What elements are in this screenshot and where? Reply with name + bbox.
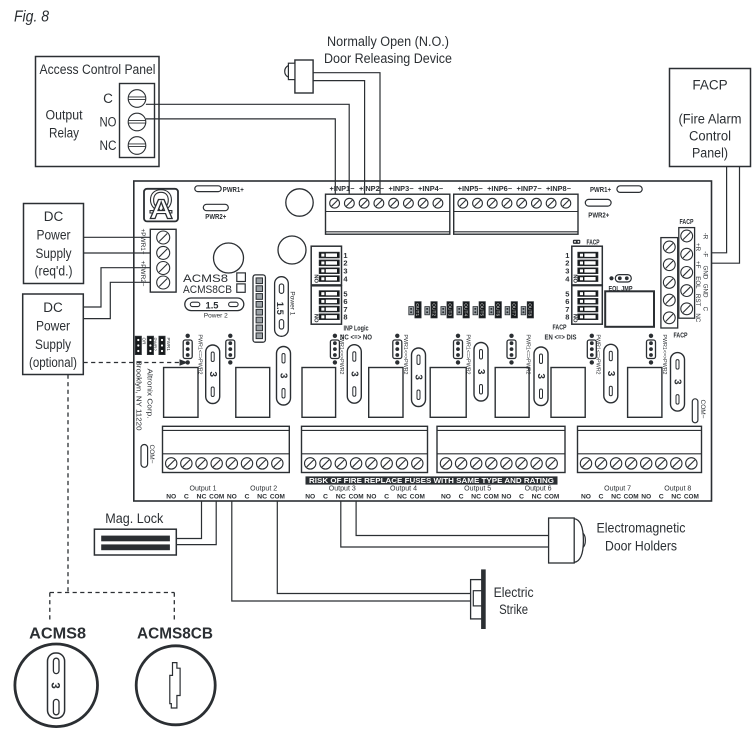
svg-text:RISK OF FIRE REPLACE FUSES WIT: RISK OF FIRE REPLACE FUSES WITH SAME TYP… <box>309 478 555 485</box>
svg-text:OUT3: OUT3 <box>447 303 452 316</box>
svg-text:Fig. 8: Fig. 8 <box>14 9 49 26</box>
svg-text:OR: OR <box>142 338 147 346</box>
svg-text:C: C <box>103 91 113 106</box>
svg-text:+INP4−: +INP4− <box>418 186 443 193</box>
svg-text:OUT2: OUT2 <box>431 303 436 316</box>
svg-text:Power 2: Power 2 <box>204 313 228 320</box>
svg-text:NO: NO <box>305 493 315 500</box>
svg-text:3: 3 <box>349 371 360 377</box>
svg-text:3: 3 <box>207 371 218 377</box>
svg-text:ON: ON <box>314 314 320 323</box>
svg-text:+R: +R <box>694 243 701 252</box>
svg-text:+PWR1−: +PWR1− <box>139 229 146 255</box>
svg-text:ON: ON <box>574 314 580 323</box>
svg-text:Output 6: Output 6 <box>525 486 552 493</box>
svg-text:A: A <box>150 193 174 224</box>
svg-text:Output: Output <box>46 108 83 123</box>
svg-text:ACMS8: ACMS8 <box>29 626 86 643</box>
svg-text:3: 3 <box>605 371 616 377</box>
svg-text:PWR2+: PWR2+ <box>205 214 226 221</box>
svg-text:Altronix Corp.: Altronix Corp. <box>145 369 152 419</box>
svg-text:COM−: COM− <box>148 445 155 464</box>
svg-text:COM: COM <box>684 493 699 500</box>
svg-text:PWR1<=>PWR2: PWR1<=>PWR2 <box>595 335 601 375</box>
svg-text:+INP5−: +INP5− <box>458 186 483 193</box>
svg-text:ACMS8CB: ACMS8CB <box>183 284 232 296</box>
svg-text:COM: COM <box>270 493 285 500</box>
svg-text:PWR1+: PWR1+ <box>223 187 244 194</box>
svg-text:Strike: Strike <box>499 602 528 617</box>
svg-text:COM: COM <box>624 493 639 500</box>
svg-text:+INP2−: +INP2− <box>359 186 384 193</box>
svg-text:+INP7−: +INP7− <box>517 186 542 193</box>
svg-text:3: 3 <box>278 373 289 379</box>
svg-text:C: C <box>599 493 604 500</box>
svg-text:NO: NO <box>166 493 176 500</box>
svg-text:PWR1<=>PWR2: PWR1<=>PWR2 <box>661 335 667 375</box>
svg-text:DC: DC <box>43 300 63 315</box>
svg-text:+INP8−: +INP8− <box>546 186 571 193</box>
svg-text:EN <=> DIS: EN <=> DIS <box>545 334 577 341</box>
svg-text:C: C <box>659 493 664 500</box>
svg-text:Control: Control <box>689 129 731 144</box>
svg-text:FACP: FACP <box>680 219 694 226</box>
svg-text:Access Control Panel: Access Control Panel <box>40 62 156 77</box>
svg-text:Panel): Panel) <box>692 146 728 161</box>
svg-text:C: C <box>459 493 464 500</box>
svg-text:Output 8: Output 8 <box>664 486 691 493</box>
svg-text:PWR1<=>PWR2: PWR1<=>PWR2 <box>338 335 344 375</box>
svg-text:NO: NO <box>100 115 117 130</box>
svg-text:+INP6−: +INP6− <box>487 186 512 193</box>
svg-text:NO: NO <box>581 493 591 500</box>
svg-text:1.5: 1.5 <box>206 300 220 311</box>
svg-text:Output 3: Output 3 <box>329 486 356 493</box>
svg-text:NO: NO <box>501 493 511 500</box>
svg-text:DC: DC <box>44 209 64 224</box>
svg-text:COM−: COM− <box>699 400 706 419</box>
svg-text:Power: Power <box>36 319 70 334</box>
svg-text:C: C <box>245 493 250 500</box>
svg-text:NC: NC <box>694 313 701 322</box>
svg-text:FACP: FACP <box>692 78 727 93</box>
svg-text:Output 1: Output 1 <box>190 486 217 493</box>
svg-text:NO: NO <box>227 493 237 500</box>
svg-text:GND: GND <box>701 284 708 298</box>
svg-text:Output 7: Output 7 <box>604 486 631 493</box>
svg-text:Brooklyn, NY 11220: Brooklyn, NY 11220 <box>135 361 142 431</box>
svg-text:3: 3 <box>475 369 486 375</box>
svg-text:3: 3 <box>672 379 683 385</box>
svg-text:Output 2: Output 2 <box>250 486 277 493</box>
svg-text:Output 4: Output 4 <box>390 486 417 493</box>
svg-text:NC: NC <box>257 493 267 500</box>
svg-text:PWR2: PWR2 <box>152 338 157 352</box>
svg-text:ON: ON <box>314 274 320 283</box>
svg-text:OUT5: OUT5 <box>479 303 484 316</box>
svg-text:+INP3−: +INP3− <box>389 186 414 193</box>
svg-text:FACP: FACP <box>553 325 567 332</box>
svg-text:3: 3 <box>49 682 61 688</box>
svg-text:C: C <box>701 307 708 312</box>
svg-text:RST: RST <box>694 294 701 307</box>
svg-text:OUT4: OUT4 <box>463 303 468 316</box>
svg-text:NC: NC <box>197 493 207 500</box>
svg-text:NC: NC <box>336 493 346 500</box>
svg-text:Normally Open (N.O.): Normally Open (N.O.) <box>327 34 449 49</box>
svg-text:Mag. Lock: Mag. Lock <box>105 511 163 526</box>
svg-text:Supply: Supply <box>36 246 72 261</box>
svg-text:NC: NC <box>532 493 542 500</box>
svg-text:Electric: Electric <box>494 585 534 600</box>
svg-text:Door Releasing Device: Door Releasing Device <box>324 51 452 66</box>
svg-text:(Fire Alarm: (Fire Alarm <box>679 112 742 127</box>
svg-text:C: C <box>384 493 389 500</box>
svg-text:Relay: Relay <box>49 126 79 141</box>
svg-text:(req'd.): (req'd.) <box>35 264 73 279</box>
svg-text:Output 5: Output 5 <box>464 486 491 493</box>
svg-text:8: 8 <box>565 313 569 322</box>
svg-text:(optional): (optional) <box>29 355 77 370</box>
svg-text:COM: COM <box>209 493 224 500</box>
svg-text:EOL: EOL <box>694 276 701 289</box>
svg-text:OUT1: OUT1 <box>415 303 420 316</box>
svg-text:NO: NO <box>366 493 376 500</box>
svg-text:PWR1<=>PWR2: PWR1<=>PWR2 <box>402 335 408 375</box>
svg-text:NC: NC <box>671 493 681 500</box>
svg-text:Power 1: Power 1 <box>288 291 295 315</box>
svg-text:PWR1<=>PWR2: PWR1<=>PWR2 <box>196 335 202 375</box>
svg-text:3: 3 <box>413 374 424 380</box>
svg-text:Electromagnetic: Electromagnetic <box>597 520 686 536</box>
svg-text:Power: Power <box>37 228 71 243</box>
svg-text:8: 8 <box>343 313 347 322</box>
svg-text:OUT8: OUT8 <box>528 303 533 316</box>
svg-text:C: C <box>184 493 189 500</box>
svg-text:GND: GND <box>701 266 708 280</box>
svg-text:PWR1<=>PWR2: PWR1<=>PWR2 <box>465 335 471 375</box>
svg-text:-R: -R <box>701 233 708 240</box>
svg-text:NC: NC <box>397 493 407 500</box>
svg-text:+F: +F <box>694 261 701 269</box>
svg-text:NO: NO <box>641 493 651 500</box>
svg-text:NC: NC <box>611 493 621 500</box>
svg-text:NO: NO <box>441 493 451 500</box>
svg-text:FACP: FACP <box>587 239 600 246</box>
svg-text:C: C <box>519 493 524 500</box>
svg-text:COM: COM <box>484 493 499 500</box>
svg-text:ACMS8CB: ACMS8CB <box>137 626 213 643</box>
svg-text:PWR1+: PWR1+ <box>590 187 611 194</box>
svg-text:OUT7: OUT7 <box>512 303 517 316</box>
svg-text:PWR2+: PWR2+ <box>588 213 609 220</box>
svg-text:3: 3 <box>535 373 546 379</box>
svg-text:-F: -F <box>701 251 708 257</box>
svg-text:COM: COM <box>544 493 559 500</box>
svg-text:NC: NC <box>471 493 481 500</box>
svg-text:COM: COM <box>349 493 364 500</box>
svg-text:PWR1<=>PWR2: PWR1<=>PWR2 <box>525 335 531 375</box>
svg-text:FACP: FACP <box>674 333 688 340</box>
svg-text:PWR1: PWR1 <box>166 338 171 352</box>
svg-text:INP Logic: INP Logic <box>344 326 369 333</box>
svg-text:Supply: Supply <box>35 337 71 352</box>
svg-text:+INP1−: +INP1− <box>329 186 354 193</box>
svg-text:ON: ON <box>574 274 580 283</box>
svg-text:C: C <box>323 493 328 500</box>
svg-text:1.5: 1.5 <box>274 302 285 316</box>
svg-text:NC: NC <box>100 138 117 153</box>
svg-text:OUT6: OUT6 <box>495 303 500 316</box>
svg-text:+PWR2−: +PWR2− <box>139 261 146 287</box>
svg-text:COM: COM <box>410 493 425 500</box>
svg-text:Door Holders: Door Holders <box>605 538 677 554</box>
